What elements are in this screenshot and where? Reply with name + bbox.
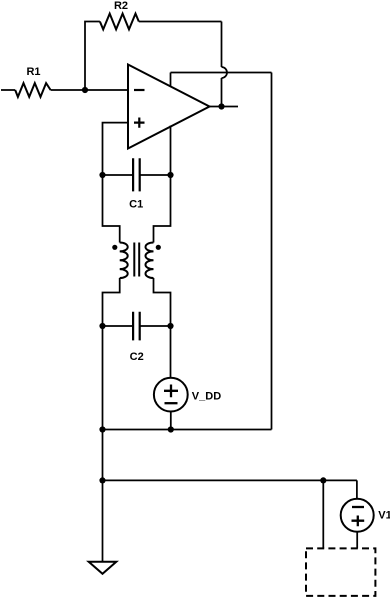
wire R2 down to hop [221,22,223,68]
wire C2 right lead [140,325,171,327]
capacitor C1 plates [133,158,140,191]
op-amp U1 output stub [210,106,239,108]
op-amp U1 plus sign [134,118,145,128]
node A junction dot (R1 / R2 / op-amp minus) [82,87,88,93]
resistor R1 [15,83,50,97]
wire C2 left lead [103,325,134,327]
voltage source V1 plus sign [352,516,365,527]
transformer T1 primary winding [120,243,128,279]
voltage source V_DD circle [154,378,188,412]
wire junction down to box [322,480,324,548]
svg-text:R1: R1 [26,66,40,78]
wire node A up to R2 [85,22,100,91]
wire C1 left down to transformer [103,175,120,243]
node output junction dot [218,103,224,109]
transformer T1 secondary phase dot [156,245,161,250]
wire R1 to op-amp inverting input [51,89,128,91]
ground symbol [89,562,117,574]
wire C1 left lead [103,174,134,176]
wire ground stem [102,480,104,561]
svg-text:R2: R2 [114,0,128,12]
voltage source V1 circle [341,499,374,532]
capacitor C2 plates [133,312,140,341]
wire top power to right rail [171,72,272,74]
node ground bus junction dot [99,477,105,483]
wire hop over horizontal wire [222,67,228,78]
wire op-amp plus input [103,123,129,175]
node C2 left junction dot [99,323,105,329]
svg-text:C2: C2 [130,351,144,363]
wire C2 left down left rail [102,326,104,430]
transformer T1 secondary winding [146,243,154,279]
dashed box subcircuit [306,548,375,596]
wire C1 right down to transformer [154,175,171,243]
op-amp U1 top power pin [170,73,172,87]
wire transformer right down to C2 [154,278,171,326]
wire left rail to ground bus [102,430,104,481]
node box branch junction dot [320,477,326,483]
voltage source V1 minus sign [352,506,364,508]
wire ground bus [103,479,357,481]
transformer T1 core [134,243,139,277]
svg-text:C1: C1 [129,199,143,211]
op-amp U1 triangle [128,65,210,149]
wire transformer left down to C2 [103,278,120,326]
op-amp U1 bottom power pin [170,126,172,176]
node C1 right junction dot [167,172,173,178]
wire bottom bus 1 [103,429,272,431]
wire down to V1 [356,480,358,498]
node C1 left junction dot [99,172,105,178]
wire V_DD bottom lead [170,412,172,430]
voltage source V_DD plus sign [164,385,178,398]
node C2 right junction dot [167,323,173,329]
wire C2 right down to V_DD [170,326,172,378]
op-amp U1 minus sign [134,89,145,91]
wire R2 right to corner [139,21,222,23]
wire input to R1 [1,89,15,91]
svg-text:V1: V1 [378,510,390,522]
wire hop to output node [221,78,223,107]
node bus1 V_DD junction dot [168,426,174,432]
svg-text:V_DD: V_DD [192,391,221,403]
node bus1 left junction dot [99,426,105,432]
wire C1 right lead [140,174,171,176]
transformer T1 primary phase dot [112,245,117,250]
wire right rail down [271,73,273,430]
wire V1 bottom to box [356,532,358,549]
voltage source V_DD minus sign [165,402,178,404]
resistor R2 [100,14,139,30]
